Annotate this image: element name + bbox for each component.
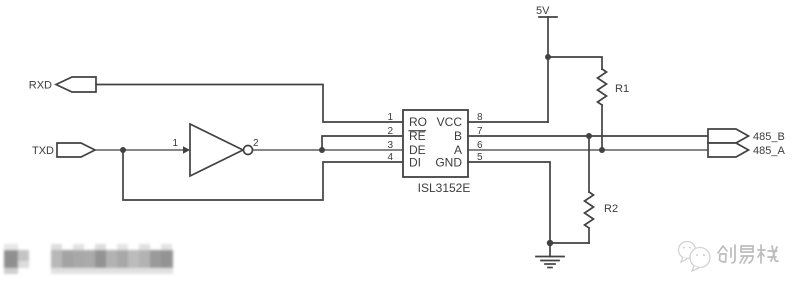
svg-text:2: 2 <box>253 138 259 149</box>
wire TXD to inverter input <box>95 149 190 151</box>
glyph yi <box>740 246 753 263</box>
ground <box>536 243 564 268</box>
node B junction <box>586 133 592 139</box>
node A junction <box>599 147 605 153</box>
svg-text:RXD: RXD <box>29 80 52 92</box>
svg-text:ISL3152E: ISL3152E <box>418 181 471 195</box>
op IC U1 ISL3152E <box>403 110 470 195</box>
svg-text:RE: RE <box>409 129 426 143</box>
watermark mosaic <box>4 244 173 274</box>
wire R2 bottom to ground <box>550 242 589 244</box>
port RXD <box>29 77 96 92</box>
svg-text:DI: DI <box>409 156 421 170</box>
svg-text:R1: R1 <box>615 83 629 95</box>
resistor R2 <box>585 136 619 243</box>
node ground junction <box>547 240 553 246</box>
inverter U2 <box>172 124 259 176</box>
svg-text:4: 4 <box>387 152 393 163</box>
wire TXD loop to pin4 DI <box>123 150 403 200</box>
resistor R1 <box>598 69 630 105</box>
glyph chuang <box>718 245 735 263</box>
wire pin8 VCC to 5V <box>468 121 548 123</box>
logo text chuang-yi-zhan <box>718 245 778 263</box>
svg-text:RO: RO <box>409 115 427 129</box>
port TXD <box>32 143 95 157</box>
wire RE tie to pin2 <box>322 136 403 150</box>
wire pin5 GND down <box>468 162 550 243</box>
wire 5V to R1 top <box>548 57 602 69</box>
node DE junction <box>319 147 325 153</box>
wire R1 bottom to line A <box>601 105 603 150</box>
port 485_A <box>708 143 785 157</box>
svg-text:485_A: 485_A <box>753 145 785 157</box>
node 5V junction <box>545 54 551 60</box>
logo icon <box>679 242 711 272</box>
svg-text:GND: GND <box>435 156 462 170</box>
svg-text:VCC: VCC <box>437 115 463 129</box>
svg-text:B: B <box>454 129 462 143</box>
wire pin7 B to port 485_B <box>468 135 708 137</box>
svg-text:485_B: 485_B <box>753 131 785 143</box>
wire inverter output to pin3 DE <box>253 149 404 151</box>
power 5V <box>536 5 557 122</box>
svg-text:1: 1 <box>387 112 393 123</box>
node TXD junction <box>120 147 126 153</box>
svg-text:R2: R2 <box>604 203 618 215</box>
svg-text:1: 1 <box>172 138 178 149</box>
port 485_B <box>708 129 785 143</box>
wire RXD to pin1 RO <box>96 85 403 123</box>
svg-text:TXD: TXD <box>32 145 54 157</box>
svg-text:2: 2 <box>387 126 393 137</box>
glyph zhan <box>758 245 778 263</box>
svg-text:5V: 5V <box>536 5 550 17</box>
svg-text:3: 3 <box>387 140 393 151</box>
wire pin6 A to port 485_A <box>468 149 708 151</box>
